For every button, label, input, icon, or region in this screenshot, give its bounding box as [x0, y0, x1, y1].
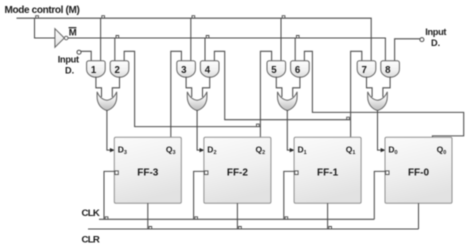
svg-text:CLR: CLR — [82, 234, 100, 245]
wire clear from FF-1 — [327, 203, 329, 229]
junction M-bar to AND6 — [296, 36, 299, 38]
junction CLR FF-1 — [329, 227, 332, 229]
svg-text:FF-1: FF-1 — [317, 168, 339, 179]
net label M-bar — [69, 27, 77, 38]
wire AND3 output to OR2 — [186, 77, 192, 97]
wire CLK line — [99, 218, 374, 220]
junction M to AND5 — [282, 16, 285, 18]
arrow into D0 — [381, 148, 386, 152]
AND gate 7 — [357, 61, 376, 78]
svg-text:Input: Input — [425, 27, 446, 37]
svg-text:Mode control (M): Mode control (M) — [5, 5, 80, 16]
flip-flop FF-0 — [385, 137, 452, 203]
wire M line to inverter input — [35, 18, 55, 38]
junction CLR FF-2 — [239, 227, 242, 229]
inverter U1 — [55, 29, 68, 48]
wire M drop to AND3 — [190, 18, 192, 61]
arrow into D3 — [110, 148, 115, 152]
junction Q1 to mid route — [347, 117, 350, 119]
svg-text:D.: D. — [431, 38, 440, 48]
svg-text:D.: D. — [65, 65, 74, 75]
AND gate 5 — [267, 61, 286, 78]
svg-text:FF-0: FF-0 — [408, 168, 430, 179]
junction M to inverter — [36, 16, 39, 18]
wire Q0 route to AND6 pin — [304, 51, 463, 137]
AND gate 2 — [110, 61, 129, 78]
wire clock to FF-2 — [194, 171, 205, 219]
AND gate 3 — [177, 61, 196, 78]
wire clear from FF-2 — [236, 203, 238, 229]
wire AND8 output to OR4 — [383, 77, 390, 97]
AND gate 4 — [200, 61, 219, 78]
svg-text:1: 1 — [91, 65, 97, 76]
wire M-bar drop to AND6 — [294, 38, 296, 61]
terminal Input D left — [77, 50, 81, 54]
wire AND7 output to OR4 — [367, 77, 373, 97]
wire M line — [17, 18, 372, 61]
svg-text:3: 3 — [181, 65, 187, 76]
wire M-bar drop to AND2 — [114, 38, 116, 61]
flip-flop FF-2 — [204, 137, 271, 203]
svg-text:5: 5 — [271, 65, 277, 76]
wire OR3 output to D1 — [287, 110, 290, 150]
wire OR2 output to D2 — [197, 110, 200, 150]
wire M-bar line — [68, 38, 385, 61]
wire clear from FF-0 — [418, 203, 420, 229]
svg-text:4: 4 — [205, 65, 211, 76]
wire M drop to AND5 — [280, 18, 282, 61]
wire M drop to AND1 — [100, 18, 102, 61]
wire Q2 mid route to AND2 pin — [124, 51, 260, 126]
wire AND4 output to OR2 — [203, 77, 210, 97]
wire OR4 output to D0 — [378, 110, 382, 150]
junction Q2 to mid route — [257, 124, 260, 126]
wire Q2 feedback to AND5 — [260, 51, 271, 137]
wire CLR line — [88, 228, 419, 230]
AND gate 1 — [87, 61, 106, 78]
AND gate 8 — [381, 61, 400, 78]
terminal Input D right — [420, 38, 424, 42]
OR gate U3 — [187, 92, 207, 111]
wire clock to FF-1 — [284, 171, 295, 219]
svg-text:FF-2: FF-2 — [227, 168, 249, 179]
wire AND6 output to OR3 — [293, 77, 300, 97]
wire clock to FF-0 — [374, 171, 385, 219]
wire Q3 feedback to AND3 — [171, 51, 182, 137]
arrow into D1 — [290, 148, 295, 152]
svg-text:CLK: CLK — [82, 208, 100, 219]
svg-text:8: 8 — [385, 65, 391, 76]
junction CLR FF-3 — [149, 227, 152, 229]
wire AND5 output to OR3 — [276, 77, 282, 97]
junction CLK FF-2 — [195, 217, 198, 219]
wire OR1 output to D3 — [107, 110, 111, 150]
OR gate U4 — [278, 92, 298, 111]
label Input D left — [58, 55, 79, 76]
flip-flop FF-1 — [294, 137, 361, 203]
wire M-bar drop to AND4 — [204, 38, 206, 61]
AND gate 6 — [291, 61, 310, 78]
svg-text:7: 7 — [362, 65, 367, 76]
wire AND2 output to OR1 — [112, 77, 119, 97]
flip-flop FF-3 — [114, 137, 181, 203]
wire Input D left to AND1 pin — [81, 51, 91, 61]
wire Input D right to AND8 pin — [395, 39, 420, 61]
wire clear from FF-3 — [147, 203, 149, 229]
junction M to AND3 — [192, 16, 195, 18]
OR gate U2 — [97, 92, 117, 111]
wire Q1 mid route to AND4 pin — [214, 51, 350, 119]
svg-text:M: M — [69, 27, 77, 38]
junction M to AND1 — [102, 16, 105, 18]
arrow into D2 — [200, 148, 205, 152]
wire clock to FF-3 — [104, 171, 115, 219]
junction M-bar to AND2 — [116, 36, 119, 38]
wire AND1 output to OR1 — [96, 77, 102, 97]
OR gate U5 — [368, 92, 388, 111]
junction CLK FF-1 — [285, 217, 288, 219]
svg-text:2: 2 — [115, 65, 120, 76]
svg-text:FF-3: FF-3 — [137, 168, 159, 179]
label Input D right — [425, 27, 446, 48]
svg-text:Input: Input — [58, 55, 79, 65]
junction CLK FF-3 — [105, 217, 108, 219]
junction M-bar to AND4 — [206, 36, 209, 38]
svg-text:6: 6 — [295, 65, 301, 76]
wire Q1 feedback to AND7 — [351, 51, 362, 137]
